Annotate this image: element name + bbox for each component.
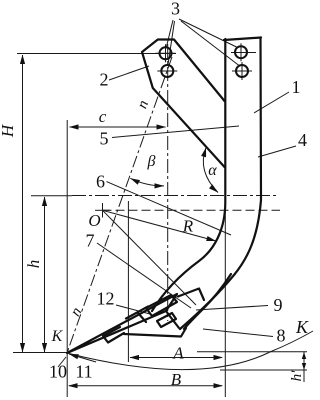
svg-text:4: 4	[298, 130, 307, 150]
svg-text:5: 5	[100, 129, 109, 149]
svg-text:6: 6	[96, 172, 105, 192]
svg-text:h': h'	[289, 370, 305, 382]
svg-text:α: α	[208, 162, 217, 179]
svg-text:9: 9	[274, 295, 283, 315]
svg-text:β: β	[147, 153, 156, 170]
svg-text:B: B	[171, 370, 182, 389]
svg-text:K: K	[51, 328, 64, 345]
svg-text:10: 10	[49, 362, 67, 382]
svg-text:c: c	[99, 107, 107, 126]
svg-text:K: K	[295, 317, 309, 337]
svg-text:7: 7	[86, 231, 95, 251]
svg-text:H: H	[0, 123, 17, 138]
svg-text:O: O	[88, 211, 100, 230]
svg-text:8: 8	[277, 326, 286, 346]
svg-text:1: 1	[292, 77, 301, 97]
svg-text:3: 3	[171, 0, 180, 19]
svg-text:A: A	[172, 344, 184, 363]
svg-text:11: 11	[75, 362, 92, 382]
svg-text:12: 12	[97, 289, 115, 309]
svg-text:R: R	[182, 217, 194, 236]
svg-text:h: h	[24, 260, 43, 269]
svg-text:2: 2	[100, 70, 109, 90]
